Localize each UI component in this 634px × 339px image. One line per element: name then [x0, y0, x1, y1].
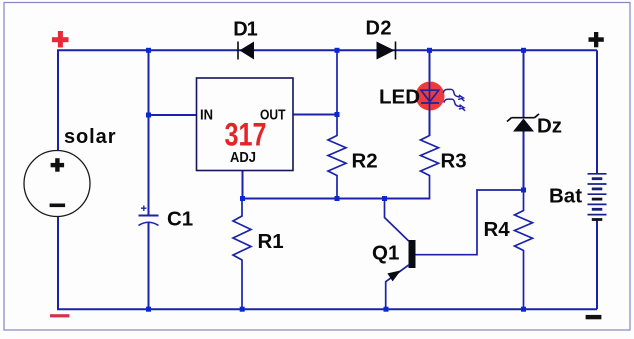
terminal plus right black	[589, 32, 604, 47]
wire right rail upper	[596, 50, 598, 174]
Q1 emitter arrow	[387, 270, 401, 281]
svg-text:317: 317	[225, 117, 267, 153]
cell plate short 5	[592, 218, 603, 221]
junction bottom rail R1	[240, 307, 245, 312]
solar cell source	[24, 151, 90, 217]
resistor R1	[233, 199, 251, 310]
svg-text:C1: C1	[167, 208, 193, 231]
wire ADJ node horizontal	[243, 198, 431, 200]
junction collector tee	[382, 196, 387, 201]
battery Bat	[588, 174, 607, 221]
wire right rail lower	[596, 220, 598, 309]
junction top rail Dz	[521, 48, 526, 53]
zener diode Dz	[507, 114, 539, 132]
svg-text:IN: IN	[200, 108, 213, 124]
junction top rail C1	[146, 48, 151, 53]
resistor R3	[385, 136, 439, 199]
wire R2 branch	[328, 50, 346, 198]
terminal plus left red	[52, 31, 69, 48]
cell plate long 3	[588, 193, 607, 195]
transistor Q1	[385, 199, 416, 310]
wire OUT	[293, 114, 337, 116]
LED cathode bar	[421, 102, 439, 104]
LED red body	[416, 82, 445, 111]
capacitor C1	[139, 206, 159, 226]
svg-text:R4: R4	[484, 218, 511, 241]
wire C1 branch lower	[148, 223, 150, 309]
LED triangle	[421, 90, 439, 101]
junction bottom rail Q1	[384, 307, 389, 312]
LED indicator	[416, 82, 466, 111]
junction OUT tee	[335, 112, 340, 117]
wire LED branch	[429, 50, 431, 136]
cell plate short 2	[592, 188, 603, 191]
solar minus sign	[50, 204, 66, 208]
cell plate short 1	[592, 177, 603, 180]
Q1 collector wire	[385, 199, 409, 242]
svg-text:R2: R2	[352, 150, 378, 173]
cell plate long 1	[588, 173, 607, 175]
junction IN tee	[146, 113, 151, 118]
junction top rail LED	[427, 48, 432, 53]
wire C1 branch upper	[148, 50, 150, 215]
cell plate short 3	[592, 198, 603, 201]
regulator U1 317 box	[197, 78, 294, 171]
junction top rail R2	[335, 48, 340, 53]
svg-text:D2: D2	[366, 18, 392, 40]
junction R4 Dz base	[521, 188, 526, 193]
diode D1	[238, 42, 254, 60]
wire bottom rail	[57, 308, 597, 310]
svg-text:R3: R3	[441, 150, 467, 173]
junction R2 bottom	[335, 196, 340, 201]
junction bottom rail R4	[521, 307, 526, 312]
Q1 base bar	[409, 240, 416, 268]
terminal minus right black	[586, 315, 602, 319]
cell plate long 4	[588, 203, 607, 205]
wire left rail	[57, 50, 59, 309]
wire IN	[149, 114, 197, 116]
LED wire inside	[429, 82, 431, 111]
LED emission arrow 1	[443, 89, 464, 101]
junction ADJ R1	[240, 196, 245, 201]
svg-text:R1: R1	[258, 230, 284, 253]
terminal minus left red	[50, 314, 69, 317]
solar plus sign	[51, 158, 65, 172]
svg-text:Dz: Dz	[537, 115, 562, 138]
wire Q1 base to R4 node	[416, 190, 524, 255]
svg-text:Bat: Bat	[549, 185, 582, 208]
svg-text:Q1: Q1	[372, 242, 399, 265]
cell plate long 2	[588, 183, 607, 185]
svg-text:solar: solar	[64, 126, 116, 148]
cell plate short 4	[592, 208, 603, 211]
junction bottom rail C1	[146, 307, 151, 312]
Q1 emitter wire	[386, 265, 409, 309]
LED emission arrow 2	[444, 99, 465, 111]
wire ADJ	[242, 171, 244, 199]
wire Dz branch	[523, 50, 525, 190]
wire top rail	[57, 49, 597, 51]
svg-text:D1: D1	[233, 19, 257, 41]
resistor R4	[515, 190, 533, 309]
svg-text:LED: LED	[379, 86, 420, 109]
svg-text:ADJ: ADJ	[230, 150, 256, 166]
cell plate long 5	[588, 214, 607, 216]
diode D2	[377, 42, 396, 60]
